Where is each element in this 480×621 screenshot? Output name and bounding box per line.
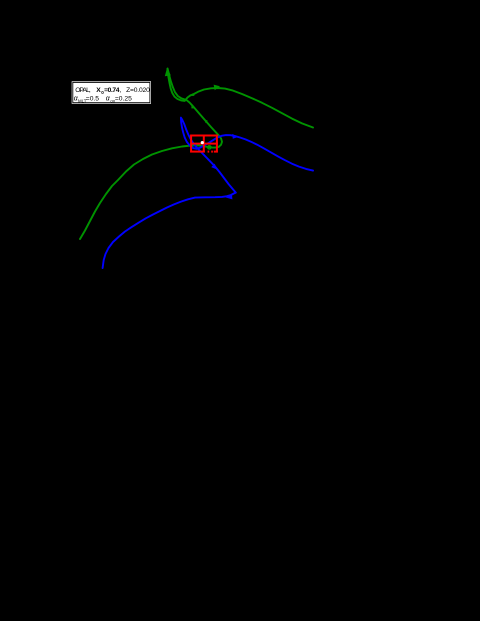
svg-text:=0.25: =0.25: [115, 96, 132, 103]
svg-text:Z=0.020: Z=0.020: [126, 87, 150, 94]
svg-text:,: ,: [120, 87, 122, 94]
svg-text:=0.5: =0.5: [86, 96, 99, 103]
svg-text:OPAL,: OPAL,: [75, 87, 91, 94]
svg-text:=0.74: =0.74: [104, 87, 120, 94]
